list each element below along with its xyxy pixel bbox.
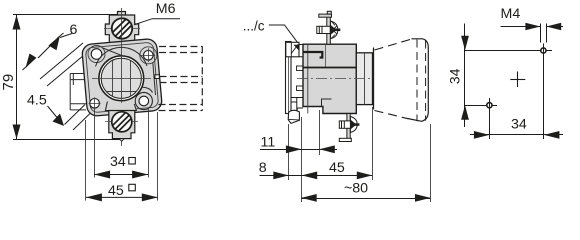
mushroom top edge dashed (375, 39, 413, 50)
dim 11 right arrow (319, 145, 335, 153)
contour right edge (153, 63, 156, 96)
corner hole TR cross (141, 48, 155, 62)
top screw centerline (104, 28, 140, 30)
dim 11 line right (320, 149, 338, 151)
dim 6 SW arrow (26, 54, 37, 69)
svg-text:45: 45 (329, 160, 345, 176)
body seam right (325, 44, 327, 67)
top screw head (112, 18, 132, 38)
dim 6 NE arrow tail (57, 33, 64, 39)
svg-text:11: 11 (261, 134, 276, 150)
clip top latch diagonal (291, 44, 298, 53)
top terminal screw (317, 26, 330, 33)
bottom terminal clamp band (350, 123, 359, 126)
dim 11 line left (260, 149, 301, 151)
dim 80 left arrow (301, 194, 317, 202)
bottom hole crosshair (489, 98, 491, 112)
dim 45 left arrow (86, 193, 102, 201)
top terminal nub (327, 11, 331, 14)
dim 8 right arrow (302, 172, 318, 180)
body terminal bar (304, 52, 323, 58)
dim 34 vertical top arrow (461, 36, 469, 51)
dim 6 NE arrow (49, 36, 61, 51)
top hole crosshair (543, 44, 545, 58)
dim M4 left arrow (525, 23, 540, 31)
flange plate side view (286, 42, 292, 114)
panel break line upper (40, 43, 83, 79)
dim M4 line right (546, 26, 563, 28)
clip bottom latch (288, 110, 299, 123)
body groove (303, 67, 356, 69)
svg-text:.../c: .../c (243, 19, 265, 34)
bottom terminal screw head line (341, 121, 343, 128)
top terminal stem (327, 15, 331, 44)
dim 45 middle line (302, 175, 373, 177)
svg-text:8: 8 (259, 160, 267, 176)
extension line flange back (288, 124, 290, 180)
flange plate (82, 38, 163, 116)
dim 34 vertical bottom arrow (461, 105, 469, 120)
dim 34 bottom right arrow (544, 131, 560, 139)
top screw block (105, 15, 138, 43)
bottom reference line (13, 139, 122, 141)
top hole (541, 48, 546, 53)
top terminal screw head line (318, 26, 320, 33)
clip top step to body (299, 45, 303, 57)
bottom hole (487, 103, 492, 108)
top terminal clamp (331, 21, 338, 39)
svg-text:34: 34 (448, 68, 464, 84)
svg-text:34: 34 (110, 154, 126, 170)
corner hole surround TR (140, 47, 157, 64)
svg-text:34: 34 (511, 116, 527, 132)
dim 34 bottom left arrow (474, 131, 490, 139)
panel break bottom line 2 (73, 113, 91, 130)
top hole vertical line (543, 58, 545, 140)
dim 34 bottom line right (544, 134, 563, 136)
dim 45 right arrow (142, 193, 158, 201)
dim M4 line left (501, 26, 541, 28)
top terminal clamp dark wedge (331, 25, 337, 35)
dim 45 right extension (157, 112, 159, 201)
dim 11 line middle (301, 149, 319, 151)
extension line collar front (372, 107, 374, 180)
dim 45 left extension (85, 120, 87, 201)
dim 4.5 leader (48, 106, 60, 121)
dim 34 right extension (148, 108, 150, 178)
central hole outer circle (99, 56, 144, 101)
svg-text:79: 79 (0, 74, 17, 91)
mushroom face (408, 39, 429, 122)
clip bottom latch fold line (288, 118, 299, 121)
top screw hatch (113, 19, 132, 38)
dim M4 right arrow (546, 23, 561, 31)
corner hole TL (91, 49, 102, 60)
extension line body front (301, 117, 303, 202)
collar seam (364, 53, 366, 105)
bottom screw hatch (113, 113, 131, 131)
dim 79 bottom arrow (13, 125, 21, 140)
dim 34 line (94, 174, 148, 176)
contact block body (303, 44, 356, 113)
mushroom bottom edge dashed (375, 111, 409, 119)
center cross (510, 72, 525, 88)
bottom hole extension (489, 112, 491, 139)
dim 45 line (86, 196, 158, 198)
flange plate inner line (288, 42, 290, 114)
bottom screw centerline (105, 121, 138, 123)
mushroom face dashed arc 2 (425, 41, 427, 121)
svg-text:M4: M4 (501, 6, 521, 22)
clip profile bottom (291, 98, 303, 111)
projection dashed lines (159, 46, 203, 111)
mushroom base (373, 48, 375, 110)
dim 34 vertical line (464, 24, 466, 128)
collar (356, 53, 372, 105)
bottom screw head (112, 112, 132, 132)
clip top latch dark corner (294, 45, 299, 50)
dim 6 SW arrow tail (23, 66, 28, 71)
corner hole TR (144, 51, 154, 61)
center line (297, 78, 371, 80)
bottom hole reference line (465, 105, 497, 107)
dim 34 bottom line mid (489, 134, 544, 136)
svg-text:4.5: 4.5 (27, 92, 47, 108)
bottom neck (105, 102, 136, 111)
button shaft square (102, 58, 141, 98)
bottom terminal bar (339, 138, 351, 141)
dim 34 left arrow (94, 171, 110, 179)
panel edge left (70, 74, 91, 111)
dim 34 left extension (94, 109, 96, 178)
dim 11 left arrow (286, 145, 302, 153)
panel break line lower (47, 50, 90, 86)
dim 79 vertical line (16, 15, 18, 139)
dim 79 top arrow (13, 15, 21, 30)
body seam left (307, 44, 309, 113)
extension line step (319, 110, 321, 155)
corner hole surround TL (88, 46, 105, 63)
dim 45 square symbol (129, 184, 136, 191)
clip top latch box (286, 42, 299, 57)
clip latch notch lower (297, 86, 304, 91)
centerline vertical (121, 8, 123, 146)
corner hole surround BR hook (135, 92, 152, 109)
body step contour (322, 99, 332, 106)
panel break bottom line 1 (65, 105, 86, 125)
label .../c leader (269, 25, 299, 44)
clip top latch divider (290, 42, 292, 57)
top terminal bar (319, 14, 332, 17)
dim 34 bottom line left (470, 134, 489, 136)
bottom terminal clamp dark wedge (350, 120, 356, 130)
dim M4 tick left (540, 24, 542, 43)
svg-text:~80: ~80 (344, 181, 368, 197)
centerline horizontal (92, 78, 151, 80)
dim 6 leader (60, 34, 72, 38)
corner hole BL (90, 99, 100, 109)
top hole reference line (465, 50, 552, 52)
top terminal clamp teeth (332, 22, 338, 39)
flange right tab (155, 75, 159, 79)
bottom screw tip (119, 139, 124, 142)
bottom terminal stem (347, 114, 350, 140)
central hole inner circle (101, 58, 141, 98)
dim 80 right arrow (415, 194, 431, 202)
corner hole BR (139, 96, 149, 106)
dim 80 line (301, 198, 430, 200)
dim 6 tick 1 (45, 45, 52, 52)
dim 34 right arrow (132, 171, 148, 179)
clip latch notch upper (297, 66, 304, 71)
mushroom face dashed arc 1 (416, 40, 418, 122)
dim 4.5 arrow (53, 114, 65, 127)
svg-text:6: 6 (70, 22, 78, 38)
dim 34 square symbol (129, 158, 136, 165)
corner hole BL cross (89, 97, 101, 109)
corner BR hook curve (137, 87, 153, 92)
dim 6 tick 2 (38, 51, 45, 58)
top reference line (13, 14, 118, 16)
boss outer faint arc (96, 47, 148, 66)
contour tangent TL (103, 48, 134, 60)
top screw slot tab (118, 12, 126, 16)
dim 8 line (260, 175, 302, 177)
svg-text:M6: M6 (156, 1, 176, 17)
top terminal clamp band (331, 29, 341, 32)
svg-text:45: 45 (108, 183, 124, 199)
extension line mushroom front (430, 124, 432, 202)
dim 45 middle right arrow (357, 172, 373, 180)
bottom terminal clamp (350, 117, 357, 133)
bottom screw block (109, 111, 135, 139)
dim M4 tick right (546, 24, 548, 43)
dim 8 left arrow (273, 172, 289, 180)
label M6 leader (134, 19, 180, 25)
bottom terminal screw (339, 121, 352, 128)
